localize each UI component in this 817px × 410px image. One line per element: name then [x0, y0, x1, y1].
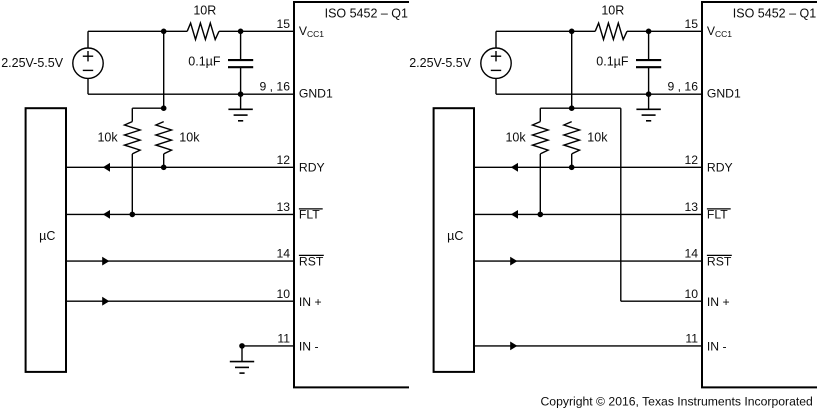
wire VCC rail from source to resistor [496, 30, 595, 32]
junction node VCC rail to capacitor [646, 29, 652, 35]
svg-text:12: 12 [684, 153, 698, 167]
voltage source V2 2.25V-5.5V [481, 48, 511, 78]
arrowhead FLT toward microcontroller [511, 210, 518, 219]
svg-text:10k: 10k [505, 130, 526, 144]
wire IN- line from microcontroller to pin 11 [474, 345, 702, 347]
svg-text:10k: 10k [97, 130, 118, 144]
svg-text:11: 11 [277, 332, 290, 346]
svg-text:14: 14 [276, 247, 290, 261]
resistor R4 10R [595, 23, 627, 39]
resistor R6 10k [564, 122, 580, 154]
svg-text:10k: 10k [179, 130, 200, 144]
svg-text:14: 14 [684, 247, 698, 261]
wire IN+ line from microcontroller to pin 10 [66, 300, 294, 302]
wire GND rail from source to GND1 pins 9,16 [88, 93, 294, 95]
ground symbol on GND rail [648, 94, 650, 109]
ground symbol on GND rail [240, 94, 242, 109]
junction node on VCC rail to pull-up resistors [569, 29, 575, 35]
svg-text:11: 11 [685, 332, 698, 346]
wire RST line from microcontroller to pin 14 [474, 260, 702, 262]
isolator IC U2 ISO 5452 – Q1 outline [702, 2, 817, 387]
arrowhead FLT toward microcontroller [103, 210, 110, 219]
svg-text:µC: µC [39, 229, 55, 243]
junction dot at pull-up node [161, 105, 167, 111]
svg-text:IN -: IN - [707, 339, 727, 353]
wire from VCC rail down to pull-up node [571, 31, 573, 108]
resistor R3 10k [156, 122, 172, 154]
svg-text:GND1: GND1 [707, 87, 741, 101]
junction node GND rail to ground symbol [238, 91, 244, 97]
wire V2 positive lead to VCC rail [495, 31, 497, 48]
svg-text:13: 13 [276, 200, 290, 214]
junction dot at pull-up node [569, 105, 575, 111]
resistor R5 10k [539, 108, 541, 121]
arrowhead RST toward isolator [510, 257, 517, 266]
wire RST line from microcontroller to pin 14 [66, 260, 294, 262]
arrowhead IN- toward isolator [510, 342, 517, 351]
arrowhead RST toward isolator [102, 257, 109, 266]
svg-text:10: 10 [276, 287, 290, 301]
junction dot IN- to ground [239, 343, 245, 349]
svg-text:FLT: FLT [299, 208, 320, 222]
svg-text:15: 15 [684, 17, 698, 31]
svg-text:IN +: IN + [707, 295, 730, 309]
voltage source V1 2.25V-5.5V [73, 48, 103, 78]
isolator IC U1 ISO 5452 – Q1 outline [294, 2, 409, 387]
svg-text:VCC1: VCC1 [299, 24, 324, 39]
wire R5 bottom lead down to FLT line [539, 154, 541, 215]
wire RDY line from microcontroller to pin 12 [474, 166, 702, 168]
wire FLT line from microcontroller to pin 13 [66, 213, 294, 215]
capacitor C1 0.1uF [240, 31, 242, 60]
junction dot FLT line to pull-up resistor [538, 212, 544, 218]
wire FLT line from microcontroller to pin 13 [474, 213, 702, 215]
wire VCC rail from source to resistor [88, 30, 187, 32]
svg-text:9 , 16: 9 , 16 [260, 80, 291, 94]
svg-text:9 , 16: 9 , 16 [668, 80, 699, 94]
wire resistor to VCC1 pin 15 [219, 30, 294, 32]
svg-text:FLT: FLT [707, 208, 728, 222]
svg-text:0.1µF: 0.1µF [188, 55, 221, 69]
ground symbol on IN- line [241, 346, 243, 362]
resistor R1 10R [187, 23, 219, 39]
svg-text:ISO 5452 – Q1: ISO 5452 – Q1 [325, 7, 408, 21]
svg-text:10k: 10k [587, 130, 608, 144]
arrowhead RDY toward microcontroller [511, 163, 518, 172]
wire V1 positive lead to VCC rail [87, 31, 89, 48]
wire pull-up node connecting resistor tops [540, 107, 621, 109]
arrowhead IN+ toward isolator [102, 297, 109, 306]
wire from VCC rail down to pull-up node [163, 31, 165, 108]
microcontroller block uC2 [434, 108, 474, 372]
capacitor C2 0.1uF [648, 31, 650, 60]
svg-text:12: 12 [276, 153, 290, 167]
wire IN+ line from pull-up node down to pin 10 [620, 108, 622, 301]
svg-text:ISO 5452 – Q1: ISO 5452 – Q1 [733, 7, 816, 21]
wire R2 bottom lead down to FLT line [131, 154, 133, 215]
junction node GND rail to ground symbol [646, 91, 652, 97]
junction dot RDY line to pull-up resistor [161, 165, 167, 171]
svg-text:2.25V-5.5V: 2.25V-5.5V [1, 56, 64, 70]
svg-text:13: 13 [684, 200, 698, 214]
svg-text:10: 10 [684, 287, 698, 301]
wire R6 bottom lead to RDY line [571, 154, 573, 167]
svg-text:10R: 10R [193, 4, 216, 18]
wire R3 bottom lead to RDY line [163, 154, 165, 167]
svg-text:2.25V-5.5V: 2.25V-5.5V [409, 56, 472, 70]
svg-text:IN +: IN + [299, 295, 322, 309]
svg-text:RDY: RDY [299, 161, 325, 175]
wire pull-up node connecting resistor tops [132, 107, 163, 109]
microcontroller block uC1 [26, 108, 66, 372]
wire resistor to VCC1 pin 15 [627, 30, 702, 32]
junction dot FLT line to pull-up resistor [130, 212, 136, 218]
svg-text:0.1µF: 0.1µF [596, 55, 629, 69]
svg-text:Copyright © 2016, Texas Instru: Copyright © 2016, Texas Instruments Inco… [541, 394, 813, 408]
wire V2 negative lead to GND rail [495, 78, 497, 94]
wire V1 negative lead to GND rail [87, 78, 89, 94]
svg-text:GND1: GND1 [299, 87, 333, 101]
svg-text:IN -: IN - [299, 339, 319, 353]
wire IN- line from ground to pin 11 [242, 345, 294, 347]
junction node on VCC rail to pull-up resistors [161, 29, 167, 35]
junction node VCC rail to capacitor [238, 29, 244, 35]
svg-text:µC: µC [447, 229, 463, 243]
svg-text:RST: RST [707, 254, 732, 268]
arrowhead RDY toward microcontroller [103, 163, 110, 172]
resistor R2 10k [131, 108, 133, 121]
junction dot RDY line to pull-up resistor [569, 165, 575, 171]
wire GND rail from source to GND1 pins 9,16 [496, 93, 702, 95]
svg-text:RDY: RDY [707, 161, 733, 175]
svg-text:VCC1: VCC1 [707, 24, 732, 39]
svg-text:RST: RST [299, 254, 324, 268]
wire RDY line from microcontroller to pin 12 [66, 166, 294, 168]
svg-text:10R: 10R [601, 4, 624, 18]
svg-text:15: 15 [276, 17, 290, 31]
